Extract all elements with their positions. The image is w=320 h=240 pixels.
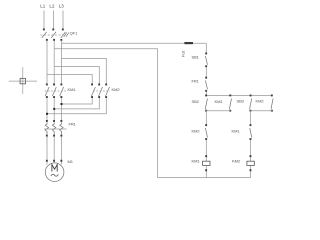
breaker QF1 pole 2 bbox=[51, 29, 56, 41]
bottom rail wire bbox=[158, 177, 251, 179]
overload contact FR1 (NC) in control bbox=[205, 77, 207, 92]
coil KM1 bbox=[203, 161, 210, 165]
junction rail at branch KM2 bbox=[250, 95, 252, 97]
contactor KM1 linkage dashes bbox=[45, 90, 67, 92]
wire interlock to coil KM2 bbox=[250, 140, 252, 161]
terminal dot above coil KM1 bbox=[205, 155, 207, 157]
terminal dot below coil KM1 bbox=[205, 169, 207, 171]
wire L3 drop to QF1 bbox=[62, 11, 64, 30]
contactor KM1 pole 3 bbox=[60, 84, 64, 99]
svg-text:FU2: FU2 bbox=[182, 50, 186, 57]
control rail wire bbox=[206, 95, 272, 97]
terminal dot above coil KM2 bbox=[250, 155, 252, 157]
svg-text:L1: L1 bbox=[40, 4, 46, 9]
wire loop1 bottom connector bbox=[206, 110, 230, 112]
wire motor line3 KM1 to FR1 bbox=[61, 98, 63, 120]
wire FR1 to motor V bbox=[53, 137, 55, 163]
wire coil KM2 to bottom rail bbox=[250, 165, 252, 177]
svg-text:L2: L2 bbox=[49, 4, 55, 9]
svg-text:SB1: SB1 bbox=[192, 54, 200, 59]
junction crossover on line1 bbox=[46, 113, 48, 115]
auxiliary contact KM2 (hold-in) bbox=[271, 95, 273, 112]
svg-text:KM2: KM2 bbox=[232, 159, 241, 164]
junction crossover on line3 bbox=[61, 103, 63, 105]
pushbutton SB2 (start fwd, NO) bbox=[205, 95, 207, 112]
datum crosshair marker bbox=[9, 67, 37, 94]
wire control return B (phase2 to left rail) bbox=[54, 49, 157, 178]
wire feed phase2 to KM2 pole2 bbox=[54, 67, 99, 84]
svg-text:SB3: SB3 bbox=[237, 99, 245, 104]
wire loop2 bottom connector bbox=[251, 110, 272, 112]
fuse FU2 bbox=[184, 42, 193, 44]
svg-text:FR1: FR1 bbox=[69, 122, 77, 127]
terminal dot motor W bbox=[60, 160, 62, 162]
svg-text:KM2: KM2 bbox=[256, 99, 265, 104]
wire motor line1 KM1 to FR1 bbox=[46, 98, 48, 120]
wire coil KM1 to bottom rail bbox=[205, 165, 207, 177]
auxiliary contact KM1 (hold-in) bbox=[229, 95, 231, 112]
terminal dot below coil KM2 bbox=[250, 169, 252, 171]
wire loop2 to interlock bbox=[250, 111, 252, 125]
contactor KM2 pole 2 bbox=[98, 84, 102, 99]
overload relay FR1 pole 1 bbox=[45, 120, 48, 137]
wire crossover KM2 pole1 to motor line3 bbox=[62, 98, 93, 104]
overload relay FR1 pole 3 bbox=[60, 120, 63, 137]
motor M1 letter bbox=[52, 165, 57, 172]
overload relay FR1 linkage line bbox=[44, 128, 67, 130]
contactor KM1 pole 2 bbox=[52, 84, 56, 99]
wire phase3 QF1 to KM1 bbox=[61, 41, 63, 84]
coil KM2 bbox=[247, 161, 254, 165]
svg-text:KM2: KM2 bbox=[192, 128, 201, 133]
contactor KM2 linkage dashes bbox=[93, 90, 110, 92]
svg-text:KM1: KM1 bbox=[68, 87, 77, 92]
svg-text:KM2: KM2 bbox=[112, 87, 121, 92]
wire phase2 QF1 to KM1 bbox=[53, 41, 55, 84]
breaker QF1 pole 1 bbox=[42, 29, 48, 41]
motor M1 circle bbox=[45, 163, 64, 182]
wire phase1 QF1 to KM1 bbox=[46, 41, 48, 84]
wire feed phase3 to KM2 pole3 bbox=[62, 58, 107, 83]
contactor KM1 pole 1 bbox=[45, 84, 49, 99]
junction crossover on line2 bbox=[53, 108, 55, 110]
svg-text:KM1: KM1 bbox=[192, 159, 201, 164]
svg-text:L3: L3 bbox=[59, 4, 65, 9]
motor M1 tilde bbox=[51, 174, 59, 176]
breaker QF1 pole 3 bbox=[60, 29, 65, 41]
svg-text:FR1: FR1 bbox=[192, 79, 200, 84]
svg-text:SB2: SB2 bbox=[192, 99, 200, 104]
overload relay FR1 pole 2 bbox=[52, 120, 55, 137]
wire motor line2 KM1 to FR1 bbox=[53, 98, 55, 120]
wire interlock to coil KM1 bbox=[205, 140, 207, 161]
interlock contact KM2 (NC) on branch 1 bbox=[205, 124, 207, 140]
breaker QF1 actuator slashes bbox=[64, 33, 69, 37]
wire FR1 to motor W bbox=[61, 137, 63, 165]
wire SB1 to FR1 contact bbox=[205, 67, 207, 77]
wire loop1 to interlock bbox=[205, 111, 207, 125]
terminal dot motor V bbox=[53, 160, 55, 162]
svg-text:QF1: QF1 bbox=[70, 30, 78, 35]
svg-text:M1: M1 bbox=[68, 159, 74, 164]
svg-text:KM1: KM1 bbox=[215, 99, 224, 104]
terminal dot motor U bbox=[46, 160, 48, 162]
wire control feed A (phase3 to fuse FU2) bbox=[62, 42, 207, 44]
wire FR1 contact to rail bbox=[205, 92, 207, 96]
contactor KM2 pole 1 bbox=[91, 84, 95, 99]
contactor KM2 pole 3 bbox=[105, 84, 109, 99]
breaker QF1 linkage dashed line bbox=[41, 34, 64, 36]
wire crossover KM2 pole2 to motor line2 bbox=[54, 98, 99, 109]
pushbutton SB3 (start rev, NO) bbox=[250, 99, 252, 112]
wire L1 drop to QF1 bbox=[43, 11, 45, 30]
pushbutton SB1 (stop, NC) bbox=[205, 53, 207, 68]
svg-text:KM1: KM1 bbox=[232, 128, 241, 133]
wire crossover KM2 pole3 to motor line1 bbox=[47, 98, 106, 114]
wire control drop from fuse bbox=[205, 43, 207, 53]
interlock contact KM1 (NC) on branch 2 bbox=[250, 124, 252, 140]
wire L2 drop to QF1 bbox=[52, 11, 54, 30]
wire feed phase1 to KM2 pole1 bbox=[47, 75, 92, 84]
wire FR1 to motor U bbox=[46, 137, 48, 165]
